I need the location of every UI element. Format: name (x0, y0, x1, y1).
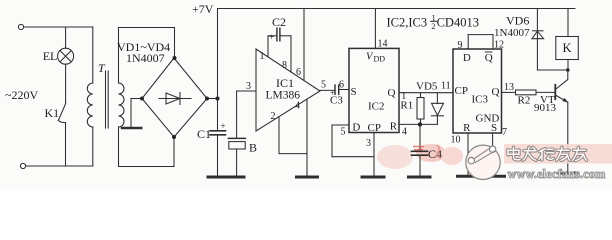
svg-text:1N4007: 1N4007 (494, 27, 530, 39)
svg-text:C2: C2 (272, 15, 286, 29)
svg-text:R2: R2 (518, 95, 531, 107)
svg-text:R: R (463, 122, 471, 134)
svg-text:EL: EL (43, 49, 58, 63)
svg-text:6: 6 (296, 67, 301, 78)
svg-text:IC1: IC1 (276, 76, 294, 90)
svg-text:D: D (352, 122, 360, 134)
svg-text:2: 2 (271, 111, 276, 122)
svg-text:11: 11 (441, 81, 451, 92)
svg-text:IC3: IC3 (472, 94, 489, 106)
svg-text:K: K (563, 41, 572, 55)
svg-text:+7V: +7V (192, 2, 214, 16)
svg-text:B: B (249, 141, 257, 155)
svg-text:14: 14 (378, 39, 388, 50)
svg-text:DD: DD (374, 55, 386, 64)
svg-text:10: 10 (451, 135, 461, 146)
svg-text:8: 8 (282, 60, 287, 71)
svg-text:3: 3 (366, 138, 371, 149)
svg-text:5: 5 (341, 127, 346, 138)
svg-text:K1: K1 (45, 106, 60, 120)
svg-text:CD4013: CD4013 (437, 16, 479, 30)
svg-text:R: R (390, 121, 398, 133)
svg-text:4: 4 (295, 101, 300, 112)
svg-text:4: 4 (402, 127, 407, 138)
svg-text:+: + (221, 121, 226, 131)
svg-text:+: + (269, 32, 274, 42)
svg-text:9: 9 (458, 40, 463, 51)
svg-text:IC2: IC2 (368, 101, 385, 113)
svg-text:D: D (463, 52, 471, 64)
svg-text:1N4007: 1N4007 (126, 51, 165, 65)
svg-text:CP: CP (455, 85, 468, 97)
svg-text:1: 1 (401, 91, 406, 102)
svg-text:5: 5 (321, 80, 326, 91)
svg-text:Q: Q (388, 87, 396, 99)
svg-text:+: + (330, 88, 335, 98)
svg-text:2: 2 (431, 21, 435, 31)
svg-text:S: S (491, 122, 497, 134)
svg-text:1: 1 (260, 51, 265, 62)
svg-text:6: 6 (339, 80, 344, 91)
svg-text:~220V: ~220V (5, 88, 38, 102)
svg-text:IC2,IC3: IC2,IC3 (387, 16, 428, 30)
svg-text:CP: CP (368, 122, 381, 134)
svg-text:3: 3 (246, 81, 251, 92)
svg-text:VD6: VD6 (506, 14, 529, 28)
svg-text:VD5: VD5 (416, 81, 438, 93)
svg-text:S: S (351, 86, 357, 98)
svg-text:12: 12 (494, 40, 504, 51)
svg-text:13: 13 (504, 82, 514, 93)
svg-text:Q: Q (485, 52, 493, 64)
svg-text:www.elecfans.com: www.elecfans.com (508, 167, 606, 181)
svg-text:Q: Q (492, 86, 500, 98)
svg-text:7: 7 (502, 127, 507, 138)
svg-text:C1: C1 (197, 127, 211, 141)
svg-text:T: T (98, 61, 106, 75)
svg-text:9013: 9013 (534, 102, 557, 114)
